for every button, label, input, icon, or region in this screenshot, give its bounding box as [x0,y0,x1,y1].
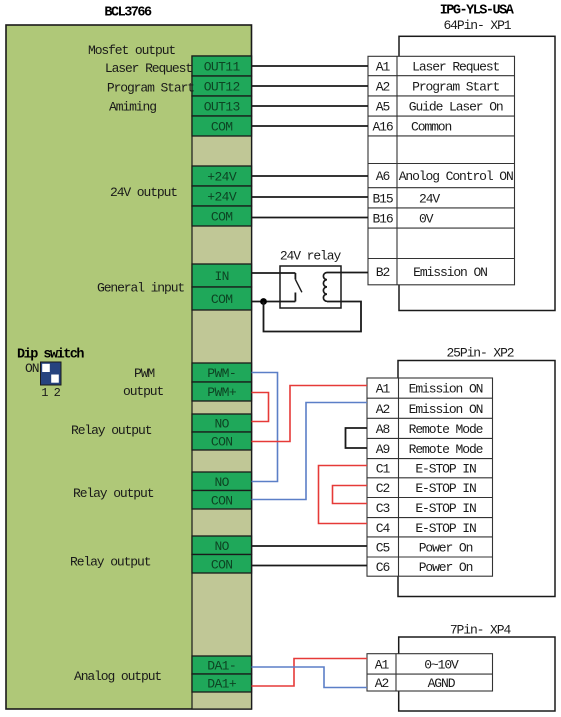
wire PWM+ to relay1 NO (red) [252,393,269,422]
svg-text:A2: A2 [375,676,389,691]
svg-text:Relay output: Relay output [70,555,151,570]
svg-text:Relay output: Relay output [71,423,152,438]
terminal DA1+ [192,674,252,692]
wire COM to XP1 B16 [252,217,369,219]
svg-text:AGND: AGND [428,676,456,691]
terminal OUT13 [192,96,252,116]
connector XP4 pin table [367,654,493,691]
svg-text:Mosfet output: Mosfet output [88,43,175,58]
svg-text:Program Start: Program Start [107,81,194,96]
wire relay2 CON to XP2 A2 (blue) [252,403,368,500]
svg-text:24V output: 24V output [110,185,177,200]
svg-text:A6: A6 [376,169,390,184]
svg-text:C3: C3 [376,501,390,516]
svg-text:Laser Request: Laser Request [412,60,499,75]
svg-text:COM: COM [211,120,233,135]
wire IN to relay switch [252,272,296,274]
svg-text:output: output [123,384,164,399]
svg-text:NO: NO [214,475,229,490]
connector XP2 pin table [367,378,493,576]
svg-text:E-STOP IN: E-STOP IN [415,501,476,516]
svg-text:A5: A5 [376,100,390,115]
svg-text:B15: B15 [372,191,392,206]
svg-text:PWM+: PWM+ [207,385,237,400]
relay switch contact [295,273,302,302]
terminal +24V (2) [192,186,252,206]
svg-text:1 2: 1 2 [41,386,60,400]
svg-text:OUT11: OUT11 [204,60,241,75]
terminal OUT12 [192,76,252,96]
svg-text:Remote Mode: Remote Mode [409,422,483,437]
junction node on COM wire [260,298,267,305]
svg-text:OUT12: OUT12 [204,80,240,95]
svg-text:OUT13: OUT13 [204,100,240,115]
svg-text:0V: 0V [419,212,434,227]
BCL3766 controller panel body [6,25,252,709]
svg-text:+24V: +24V [207,190,237,205]
svg-text:COM: COM [211,292,233,307]
svg-text:PWM: PWM [134,366,154,381]
connector XP2 outer body [398,361,555,597]
terminal CON (relay 3) [192,555,252,574]
svg-text:Remote Mode: Remote Mode [409,442,483,457]
svg-text:A2: A2 [376,79,390,94]
wire OUT13 to XP1 A5 [252,105,369,107]
connector XP4 outer body [399,637,555,711]
svg-text:Relay output: Relay output [73,486,154,501]
wire OUT12 to XP1 A2 [252,85,369,87]
terminal IN [192,264,252,287]
svg-text:BCL3766: BCL3766 [104,6,152,21]
svg-text:A9: A9 [376,442,390,457]
svg-text:C6: C6 [376,560,390,575]
wire relay coil to XP1 B2 [327,272,368,274]
terminal COM (mosfet) [192,116,252,136]
svg-text:Power On: Power On [419,560,473,575]
svg-text:Common: Common [411,120,452,135]
svg-text:Amiming: Amiming [109,100,156,115]
svg-text:Laser Request: Laser Request [105,61,192,76]
svg-text:Anolog Control ON: Anolog Control ON [399,169,513,184]
terminal CON (relay 2) [192,491,252,510]
terminal NO (relay 1) [192,414,252,432]
wire DA1+ to XP4 A1 (red) [252,659,368,687]
wire COM to relay switch (with junction) [252,301,296,303]
wire jumper XP2 A8 to A9 [346,428,368,448]
terminal NO (relay 2) [192,472,252,491]
relay coil L1 [323,273,327,302]
wire relay coil return loop to junction [264,302,362,332]
terminal COM (input) [192,287,252,310]
relay K1 body [280,266,341,308]
svg-text:C5: C5 [376,540,390,555]
svg-text:IN: IN [214,269,228,284]
svg-text:A1: A1 [375,657,390,672]
svg-text:IPG-YLS-USA: IPG-YLS-USA [440,4,515,19]
terminal CON (relay 1) [192,432,252,450]
wire OUT11 to XP1 A1 [252,65,369,67]
svg-text:NO: NO [214,539,229,554]
svg-text:B2: B2 [376,265,390,280]
svg-text:Guide Laser On: Guide Laser On [409,100,503,115]
terminal PWM- [192,363,252,382]
terminal COM (24V) [192,206,252,226]
svg-text:E-STOP IN: E-STOP IN [415,481,476,496]
connector XP1 outer body [399,36,555,310]
svg-text:Power On: Power On [419,540,473,555]
svg-text:C4: C4 [376,521,391,536]
wire COM to XP1 A16 [252,125,369,127]
wire jumper XP2 C1 to C4 (red) [319,466,368,524]
svg-text:CON: CON [211,435,233,450]
svg-text:General input: General input [97,281,184,296]
svg-text:CON: CON [211,493,233,508]
svg-text:PWM-: PWM- [207,366,236,381]
connector XP1 pin table [368,56,515,284]
svg-text:24V relay: 24V relay [280,249,342,264]
wire PWM- to relay2 NO (blue) [252,373,278,482]
svg-text:7Pin- XP4: 7Pin- XP4 [450,623,512,638]
svg-text:24V: 24V [419,191,440,206]
terminal NO (relay 3) [192,536,252,555]
svg-text:A8: A8 [376,422,390,437]
svg-text:Emission ON: Emission ON [409,402,483,417]
svg-text:+24V: +24V [207,170,237,185]
terminal OUT11 [192,56,252,76]
wire DA1- to XP4 A2 (blue) [252,667,368,688]
dip switch S1 body [41,362,62,385]
svg-text:DA1-: DA1- [207,659,236,674]
wire relay1 CON to XP2 A1 (red) [252,386,368,442]
wire relay3 CON to XP2 C6 [252,565,368,567]
terminal strip column [192,56,252,709]
wire jumper XP2 C2 to C3 (red) [333,486,368,504]
svg-text:Analog output: Analog output [74,669,161,684]
svg-text:Program Start: Program Start [412,79,499,94]
svg-text:64Pin- XP1: 64Pin- XP1 [443,18,511,33]
svg-text:C1: C1 [376,462,391,477]
svg-text:NO: NO [214,417,229,432]
terminal DA1- [192,656,252,674]
svg-text:A16: A16 [372,120,392,135]
wire relay3 NO to XP2 C5 [252,545,368,547]
wire +24V to XP1 A6 [252,175,369,177]
svg-text:A2: A2 [376,402,390,417]
svg-text:25Pin- XP2: 25Pin- XP2 [446,346,513,361]
svg-text:E-STOP IN: E-STOP IN [415,462,476,477]
svg-text:COM: COM [211,210,233,225]
svg-text:E-STOP IN: E-STOP IN [415,521,476,536]
svg-text:Emission ON: Emission ON [409,382,483,397]
svg-text:ON: ON [25,361,39,376]
svg-text:0~10V: 0~10V [424,657,459,672]
wire +24V to XP1 B15 [252,196,369,198]
terminal +24V (1) [192,166,252,186]
svg-text:CON: CON [211,557,233,572]
svg-text:C2: C2 [376,481,390,496]
terminal PWM+ [192,382,252,401]
svg-text:DA1+: DA1+ [207,677,237,692]
svg-text:B16: B16 [372,212,392,227]
svg-text:A1: A1 [376,382,391,397]
svg-text:A1: A1 [376,60,391,75]
svg-text:Emission ON: Emission ON [413,265,487,280]
